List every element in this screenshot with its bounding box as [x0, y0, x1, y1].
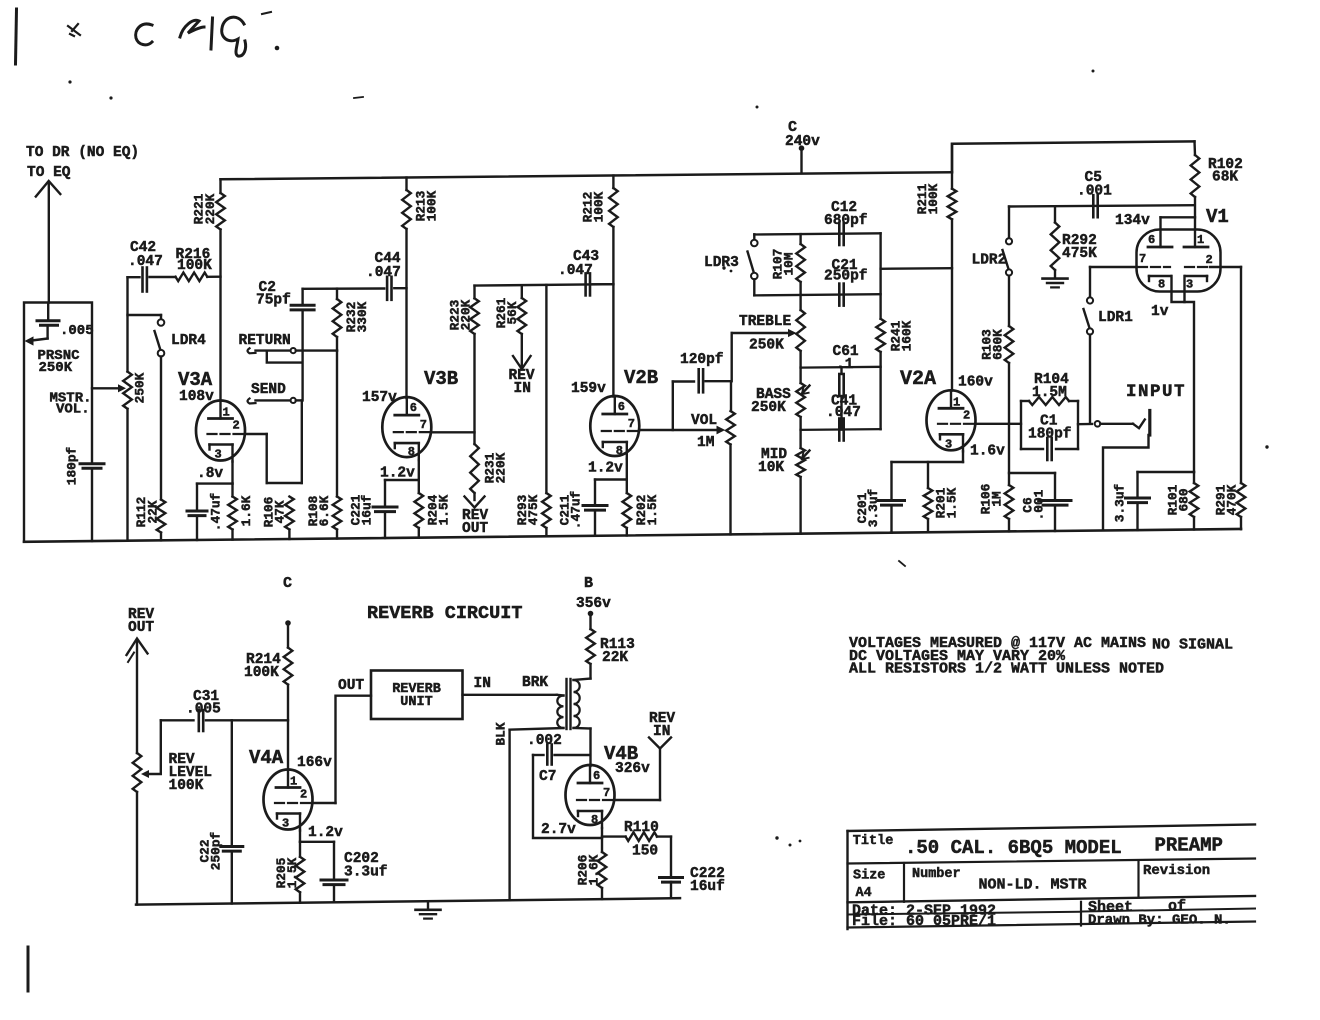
triode V3B: [382, 397, 431, 460]
V1 right grid wire: [1210, 267, 1241, 483]
junction cathode: [1138, 471, 1195, 473]
resistor R201: [924, 462, 933, 532]
svg-text:REVERB CIRCUIT: REVERB CIRCUIT: [367, 603, 522, 624]
stray mark g: [899, 561, 905, 566]
capacitor C201: [879, 462, 905, 533]
wire plate line y285: [475, 284, 614, 285]
svg-text:1: 1: [290, 775, 297, 789]
resistor R101: [1190, 472, 1199, 530]
svg-text:470K: 470K: [1224, 484, 1239, 515]
capacitor C221: [373, 480, 397, 538]
handwriting script I: [211, 18, 213, 49]
svg-text:.047: .047: [366, 265, 401, 281]
svg-text:.005: .005: [186, 702, 221, 718]
label R101 680: [1165, 484, 1191, 515]
svg-text:220K: 220K: [203, 193, 218, 224]
svg-text:Drawn By: GEO. N.: Drawn By: GEO. N.: [1088, 913, 1231, 929]
svg-text:2.7v: 2.7v: [541, 822, 576, 838]
svg-text:3: 3: [945, 437, 952, 451]
label R214: [246, 652, 281, 668]
stray dot a: [68, 80, 71, 83]
V1 left cathode: [1149, 276, 1171, 292]
resistor R113: [586, 629, 595, 679]
svg-text:.001: .001: [1031, 489, 1046, 520]
svg-text:8: 8: [616, 444, 623, 458]
label Date: [852, 902, 996, 919]
handwriting script G: [222, 17, 246, 56]
label TO DR (NO EQ): [26, 145, 139, 161]
label C42: [130, 240, 156, 256]
label R261 56K: [494, 297, 520, 328]
svg-text:2: 2: [963, 408, 970, 422]
svg-text:22K: 22K: [602, 650, 628, 666]
input jack contact: [1095, 420, 1145, 429]
triode V4B: [566, 765, 615, 828]
svg-text:PREAMP: PREAMP: [1155, 835, 1223, 857]
capacitor .47uf V3A: [187, 484, 207, 540]
to-eq arrow: [36, 181, 61, 303]
transformer primary: [574, 679, 591, 767]
stray dot f: [1265, 445, 1268, 448]
label R213 100K: [413, 190, 439, 221]
capacitor C12: [839, 223, 843, 245]
svg-text:220K: 220K: [493, 452, 508, 483]
label 108v: [179, 389, 214, 405]
label R216: [176, 247, 211, 263]
svg-text:V2B: V2B: [624, 367, 658, 389]
label C201 3.3uf: [855, 488, 881, 527]
V1 left plate: [1148, 233, 1172, 247]
input jack tip: [1148, 411, 1151, 436]
svg-text:A4: A4: [856, 886, 872, 901]
node C reverb: [283, 575, 292, 648]
stray dots d: [722, 266, 732, 272]
label MID 10K: [758, 460, 784, 476]
label C43: [573, 249, 599, 265]
resistor R202: [623, 480, 632, 536]
label C61: [833, 344, 859, 360]
label LDR4: [171, 333, 206, 349]
wire C2 to C44: [303, 287, 385, 290]
capacitor C211: [583, 480, 607, 536]
V1 left grid: [1138, 252, 1170, 267]
label Size: [853, 869, 885, 884]
grid wire V4A: [313, 696, 371, 803]
svg-text:10K: 10K: [758, 460, 784, 476]
label R232 330K: [344, 301, 370, 332]
label V3A: [178, 369, 213, 391]
label OUT: [338, 678, 364, 694]
svg-text:100K: 100K: [926, 183, 941, 214]
resistor R216: [176, 273, 221, 282]
label INPUT: [1126, 382, 1186, 402]
svg-text:1.6K: 1.6K: [586, 854, 601, 885]
capacitor C22: [221, 847, 243, 904]
capacitor 120pf: [699, 369, 731, 392]
svg-text:.50 CAL. 6BQ5 MODEL: .50 CAL. 6BQ5 MODEL: [905, 837, 1122, 859]
svg-text:3.3uf: 3.3uf: [866, 488, 881, 527]
label V2A: [900, 368, 936, 391]
resistor R102: [1191, 141, 1200, 247]
label BASS 250K: [751, 400, 786, 416]
svg-text:1: 1: [223, 406, 230, 420]
svg-text:330K: 330K: [355, 301, 370, 332]
tone rail third: [801, 366, 881, 369]
transformer secondary: [510, 695, 564, 900]
svg-text:TO EQ: TO EQ: [27, 165, 71, 181]
svg-text:B: B: [584, 575, 593, 592]
label C44 value: [366, 265, 401, 281]
label C222: [690, 866, 725, 882]
wire C5 line: [1009, 205, 1195, 206]
stray dash c: [354, 97, 363, 98]
label C31: [193, 689, 219, 705]
svg-text:250K: 250K: [132, 372, 147, 403]
capacitor C2: [291, 289, 314, 401]
note line 3: [849, 661, 1164, 678]
svg-text:TREBLE: TREBLE: [739, 314, 792, 330]
triode V4A: [264, 770, 313, 831]
label C42 value: [128, 254, 163, 270]
tone rail top: [754, 233, 880, 234]
resistor R206: [598, 852, 607, 899]
svg-text:326v: 326v: [615, 761, 650, 777]
label 180pf: [64, 446, 79, 485]
svg-text:250K: 250K: [749, 338, 784, 354]
label PRSNC: [38, 348, 81, 364]
triode V2B: [590, 396, 639, 459]
V1 right plate: [1184, 233, 1208, 247]
ground symbol: [416, 901, 441, 918]
label REVERB CIRCUIT: [367, 603, 522, 624]
cathode wire V3A: [197, 462, 233, 484]
handwriting pen stroke: [16, 9, 17, 64]
label of: [1168, 898, 1186, 915]
resistor R212: [609, 176, 618, 397]
label Revision: [1143, 863, 1210, 879]
V1 right cathode: [1185, 276, 1207, 292]
label REV IN top: [509, 368, 535, 397]
label LDR2: [972, 253, 1007, 269]
svg-text:8: 8: [1158, 278, 1165, 292]
label LDR3: [704, 255, 739, 271]
switch LDR4: [155, 315, 165, 500]
svg-text:NO SIGNAL: NO SIGNAL: [1152, 637, 1233, 654]
svg-text:1.5K: 1.5K: [285, 857, 300, 888]
svg-text:1.5K: 1.5K: [944, 487, 959, 518]
svg-text:220K: 220K: [458, 299, 473, 330]
resistor R223: [470, 286, 479, 444]
top supply bus: [221, 172, 953, 179]
label MID: [761, 447, 787, 463]
capacitor C21: [839, 284, 843, 306]
cathode wire V3B: [385, 460, 419, 480]
label C22 250pf: [197, 831, 223, 870]
triode V2A: [927, 390, 976, 451]
capacitor 180pf: [80, 464, 104, 469]
svg-text:47K: 47K: [272, 500, 287, 523]
label R204 1.5K: [425, 494, 451, 525]
switch LDR3: [748, 234, 758, 295]
label 134v: [1115, 213, 1150, 229]
label C211 .47uf: [557, 490, 583, 529]
svg-text:IN: IN: [474, 676, 491, 692]
svg-text:LDR4: LDR4: [171, 333, 206, 349]
stray dot e: [1092, 70, 1095, 73]
label C41 value: [826, 405, 861, 421]
wire to LDR4: [128, 314, 162, 316]
label C12: [831, 200, 857, 216]
resistor R231: [470, 444, 479, 500]
capacitor 3.3uf: [1126, 472, 1150, 530]
svg-text:Size: Size: [853, 869, 885, 884]
svg-text:.047: .047: [558, 263, 593, 279]
tone rail right: [879, 233, 881, 318]
capacitor C42: [128, 268, 176, 292]
wire 250K to bus: [126, 409, 128, 541]
label 1.2v V4A: [308, 825, 343, 841]
bottom ground bus: [24, 529, 1241, 542]
resistor R204: [415, 480, 424, 538]
label C61 value: [836, 357, 854, 373]
svg-text:100K: 100K: [591, 191, 606, 222]
V1 right grid: [1185, 253, 1213, 267]
svg-text:Revision: Revision: [1143, 863, 1210, 879]
label 160v: [958, 375, 993, 391]
svg-text:1.5M: 1.5M: [1032, 385, 1067, 401]
potentiometer REV LEVEL: [133, 753, 142, 905]
svg-text:.47uf: .47uf: [568, 490, 583, 529]
note line 2: [849, 648, 1066, 665]
handwriting script R: [180, 20, 204, 37]
svg-text:.001: .001: [1077, 184, 1112, 200]
svg-text:1: 1: [953, 395, 960, 409]
label C5 value: [1077, 184, 1112, 200]
label V4B: [604, 743, 638, 765]
rev out arrow bottom: [127, 639, 148, 754]
switch LDR2: [1003, 207, 1013, 327]
upper right bus: [952, 141, 1195, 172]
capacitor C5: [1093, 195, 1097, 217]
label C1: [1040, 414, 1058, 430]
svg-text:SEND: SEND: [251, 382, 286, 398]
label 16uf: [690, 879, 725, 895]
svg-text:180pf: 180pf: [1028, 427, 1072, 443]
label C5: [1085, 170, 1102, 186]
svg-text:56K: 56K: [505, 301, 520, 324]
resistor R106 47K: [285, 497, 294, 540]
label Title: [853, 834, 894, 849]
label 68K: [1212, 170, 1238, 186]
label C221 16uf: [348, 494, 374, 525]
svg-text:IN: IN: [653, 724, 670, 740]
svg-text:ALL RESISTORS 1/2 WATT UNLESS: ALL RESISTORS 1/2 WATT UNLESS NOTED: [849, 661, 1164, 678]
label R221 220K: [191, 193, 217, 224]
svg-text:OUT: OUT: [338, 678, 364, 694]
svg-text:1.2v: 1.2v: [308, 825, 343, 841]
svg-text:7: 7: [1139, 252, 1146, 266]
svg-text:166v: 166v: [297, 755, 332, 771]
resistor R213: [402, 178, 411, 399]
input jack ground leg: [1103, 435, 1149, 530]
label R291 470K: [1213, 484, 1239, 515]
rev in arrow top: [513, 356, 531, 369]
capacitor .005: [37, 303, 59, 339]
capacitor C7: [533, 745, 590, 765]
resistor R108: [333, 497, 342, 539]
handwriting small mark: [68, 24, 80, 36]
label 250K presence: [39, 360, 73, 376]
capacitor C222: [660, 837, 683, 899]
resistor R232: [333, 289, 342, 351]
label C6 .001: [1020, 489, 1046, 520]
label 22K: [602, 650, 628, 666]
label R205 1.5K: [274, 857, 300, 888]
label BASS: [756, 387, 791, 403]
svg-text:V4A: V4A: [249, 747, 284, 769]
svg-text:160K: 160K: [899, 320, 914, 351]
label NON-LD. MSTR: [979, 877, 1087, 894]
label V3B: [424, 368, 458, 390]
label TREBLE 250K: [749, 338, 784, 354]
label REV IN bottom: [649, 711, 675, 740]
potentiometer 250K: [123, 372, 132, 409]
label 2.7v: [541, 822, 576, 838]
resistor R104 box: [1021, 397, 1078, 449]
label V1: [1206, 206, 1229, 228]
svg-text:LDR1: LDR1: [1098, 310, 1133, 326]
label C202 value: [344, 865, 388, 881]
label C202: [344, 851, 379, 867]
switch LDR1: [1084, 267, 1094, 424]
bass wiper: [802, 386, 810, 395]
handwriting tick: [262, 12, 271, 14]
svg-text:LDR3: LDR3: [704, 255, 739, 271]
svg-text:UNIT: UNIT: [400, 695, 432, 710]
svg-text:.8v: .8v: [197, 466, 223, 482]
label R103 680K: [979, 329, 1005, 360]
capacitor C1: [1047, 438, 1051, 460]
V1 cathode join: [1172, 276, 1195, 472]
svg-text:680: 680: [1176, 488, 1191, 511]
svg-text:BLK: BLK: [493, 722, 508, 745]
label R212 100K: [580, 191, 606, 222]
svg-text:VOL: VOL: [691, 413, 717, 429]
rev in antenna: [649, 738, 671, 749]
svg-text:R110: R110: [624, 820, 659, 836]
note no signal: [1152, 637, 1233, 654]
grid wire V2B to VOL: [639, 426, 725, 435]
label C31 value: [186, 702, 221, 718]
svg-text:V1: V1: [1206, 206, 1229, 228]
label R293 475K: [515, 494, 541, 525]
C7 feedback loop: [533, 755, 602, 838]
svg-text:1.5K: 1.5K: [645, 494, 660, 525]
rev out arrow top: [465, 497, 485, 508]
svg-text:V2A: V2A: [900, 368, 936, 391]
send contact: [248, 398, 302, 404]
svg-text:1v: 1v: [1151, 304, 1169, 320]
svg-text:159v: 159v: [571, 381, 606, 397]
node C 240v: [785, 119, 820, 173]
resistor R106 1M: [1005, 485, 1014, 531]
potentiometer MID: [796, 430, 805, 534]
svg-text:7: 7: [603, 786, 610, 800]
label title text: [905, 837, 1122, 859]
label RETURN: [239, 333, 291, 349]
label IN: [474, 676, 491, 692]
label R241 160K: [888, 320, 914, 351]
svg-text:3.3uf: 3.3uf: [344, 865, 388, 881]
wire C42 column upper: [126, 277, 128, 371]
label R112 22K: [134, 497, 160, 528]
cathode wire V2A: [892, 451, 964, 462]
stray dot i: [756, 106, 759, 109]
grid wire V4B: [615, 749, 660, 801]
capacitor C31: [161, 710, 288, 731]
label V2B: [624, 367, 658, 389]
grid wire V2A: [976, 423, 1022, 425]
svg-text:6: 6: [618, 400, 625, 414]
V1 plate bracket: [1161, 217, 1196, 247]
resistor R211: [948, 144, 957, 391]
label C21: [832, 258, 858, 274]
label 1.2v V2B: [588, 461, 623, 477]
return contact: [248, 348, 338, 353]
svg-text:356v: 356v: [576, 596, 611, 612]
label R292: [1062, 233, 1097, 249]
svg-text:75pf: 75pf: [256, 293, 291, 309]
svg-text:475K: 475K: [1062, 246, 1097, 262]
label Number: [912, 867, 961, 882]
svg-text:1: 1: [1197, 233, 1204, 247]
node B 356v: [576, 575, 611, 629]
treble wiper: [732, 329, 797, 381]
border mark bottom-left: [27, 947, 30, 991]
capacitor C44: [387, 277, 406, 300]
label R231 220K: [482, 452, 508, 483]
note line 1: [849, 635, 1146, 652]
svg-text:250pf: 250pf: [824, 269, 868, 285]
svg-text:LDR2: LDR2: [972, 253, 1007, 269]
svg-text:150: 150: [632, 844, 658, 860]
svg-text:157v: 157v: [362, 390, 397, 406]
wiper arrow MSTR VOL: [25, 336, 48, 345]
label VOL: [691, 413, 717, 429]
tone rail fourth: [801, 428, 881, 431]
svg-text:OUT: OUT: [128, 620, 154, 636]
label R107 10M: [770, 249, 796, 280]
svg-text:IN: IN: [514, 381, 531, 397]
svg-text:134v: 134v: [1115, 213, 1150, 229]
label R102: [1208, 157, 1243, 173]
resistor R107: [796, 234, 805, 295]
triode V3A: [196, 401, 245, 462]
svg-text:.1: .1: [836, 357, 854, 373]
svg-text:1.5K: 1.5K: [436, 494, 451, 525]
label R211 100K: [915, 183, 941, 214]
svg-text:V3B: V3B: [424, 368, 458, 390]
resistor R221: [216, 179, 225, 400]
label TO EQ: [27, 165, 71, 181]
potentiometer BASS: [796, 368, 805, 430]
cathode wire V4B: [601, 828, 603, 852]
V1 left grid wire: [1090, 266, 1137, 268]
label C44: [375, 251, 401, 267]
handwriting period: [275, 46, 280, 51]
label R202 1.5K: [634, 494, 660, 525]
label Drawn By: [1088, 913, 1231, 929]
